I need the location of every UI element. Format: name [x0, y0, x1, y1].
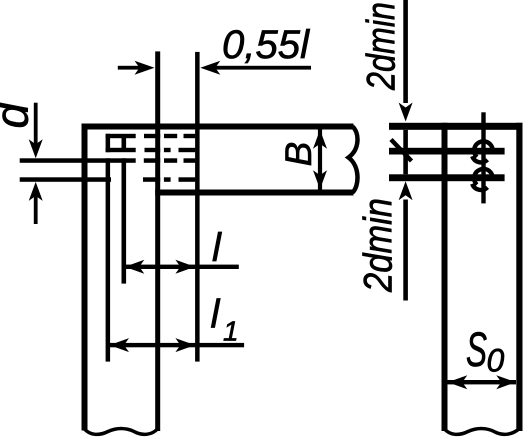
nail centerline [481, 112, 485, 203]
2dmin dimension line upper [403, 0, 408, 103]
svg-text:2dmin: 2dmin [360, 2, 404, 91]
nail row line H3 [389, 174, 505, 181]
dimension l line [125, 265, 239, 269]
B arrow up [313, 130, 327, 149]
S0 arrow right [496, 375, 516, 389]
l1 arrow right [175, 338, 195, 352]
dimension B arrow shaft [318, 130, 322, 190]
svg-text:1: 1 [223, 316, 239, 347]
nail circle 2 main arc [474, 169, 493, 185]
board bottom break wave [444, 429, 520, 435]
svg-text:0,55l: 0,55l [222, 23, 310, 67]
dim line middle [403, 130, 408, 175]
nail 2 bottom line [20, 177, 111, 182]
arrow up from below [29, 182, 43, 201]
post right edge [155, 51, 160, 431]
extension line A (l1) [106, 134, 111, 152]
nail 2 top line [20, 158, 136, 163]
beam break line [349, 127, 358, 193]
beam bottom edge [155, 190, 353, 196]
l arrow right [175, 260, 195, 274]
board right edge [516, 123, 522, 431]
svg-text:2dmin: 2dmin [357, 198, 401, 293]
S0 arrow left [448, 375, 468, 389]
dimension l1 line [109, 343, 244, 347]
post bottom break wave [84, 429, 158, 435]
extension line B (l) [122, 138, 127, 148]
nail row line H2 [389, 148, 505, 155]
left figure: horizontal beam top edge [82, 124, 354, 130]
board left edge [442, 123, 448, 431]
S0 dimension line [448, 380, 517, 384]
right extension line [195, 52, 200, 362]
arrow down [399, 103, 413, 122]
arrow up [399, 181, 413, 200]
svg-text:0: 0 [487, 343, 505, 379]
dimension 0,55l left tail [118, 66, 141, 70]
post left edge [82, 124, 88, 431]
2dmin dimension line lower [403, 200, 408, 301]
svg-text:l: l [211, 293, 221, 337]
nail circle 2 bottom arc [472, 184, 487, 190]
svg-text:B: B [278, 142, 319, 167]
dimension d line lower [34, 196, 38, 225]
l arrow left [125, 260, 145, 274]
nail circle 1 main arc [474, 141, 493, 157]
B arrow down [313, 170, 327, 189]
right figure: board top edge H1 [389, 123, 523, 130]
dimension d line upper [34, 103, 38, 146]
arrow right [135, 61, 155, 75]
oblique tick [391, 140, 412, 162]
nail 1 top line [106, 134, 136, 138]
nail circle 1 bottom arc [472, 156, 487, 162]
svg-text:d: d [0, 102, 38, 129]
arrow left [200, 61, 220, 75]
arrow down to nail [29, 139, 43, 158]
svg-text:S: S [466, 324, 487, 377]
l1 arrow left [110, 338, 130, 352]
svg-text:l: l [212, 226, 222, 270]
dimension 0,55l right tail [214, 66, 311, 70]
nail 1 bottom line [106, 148, 136, 152]
